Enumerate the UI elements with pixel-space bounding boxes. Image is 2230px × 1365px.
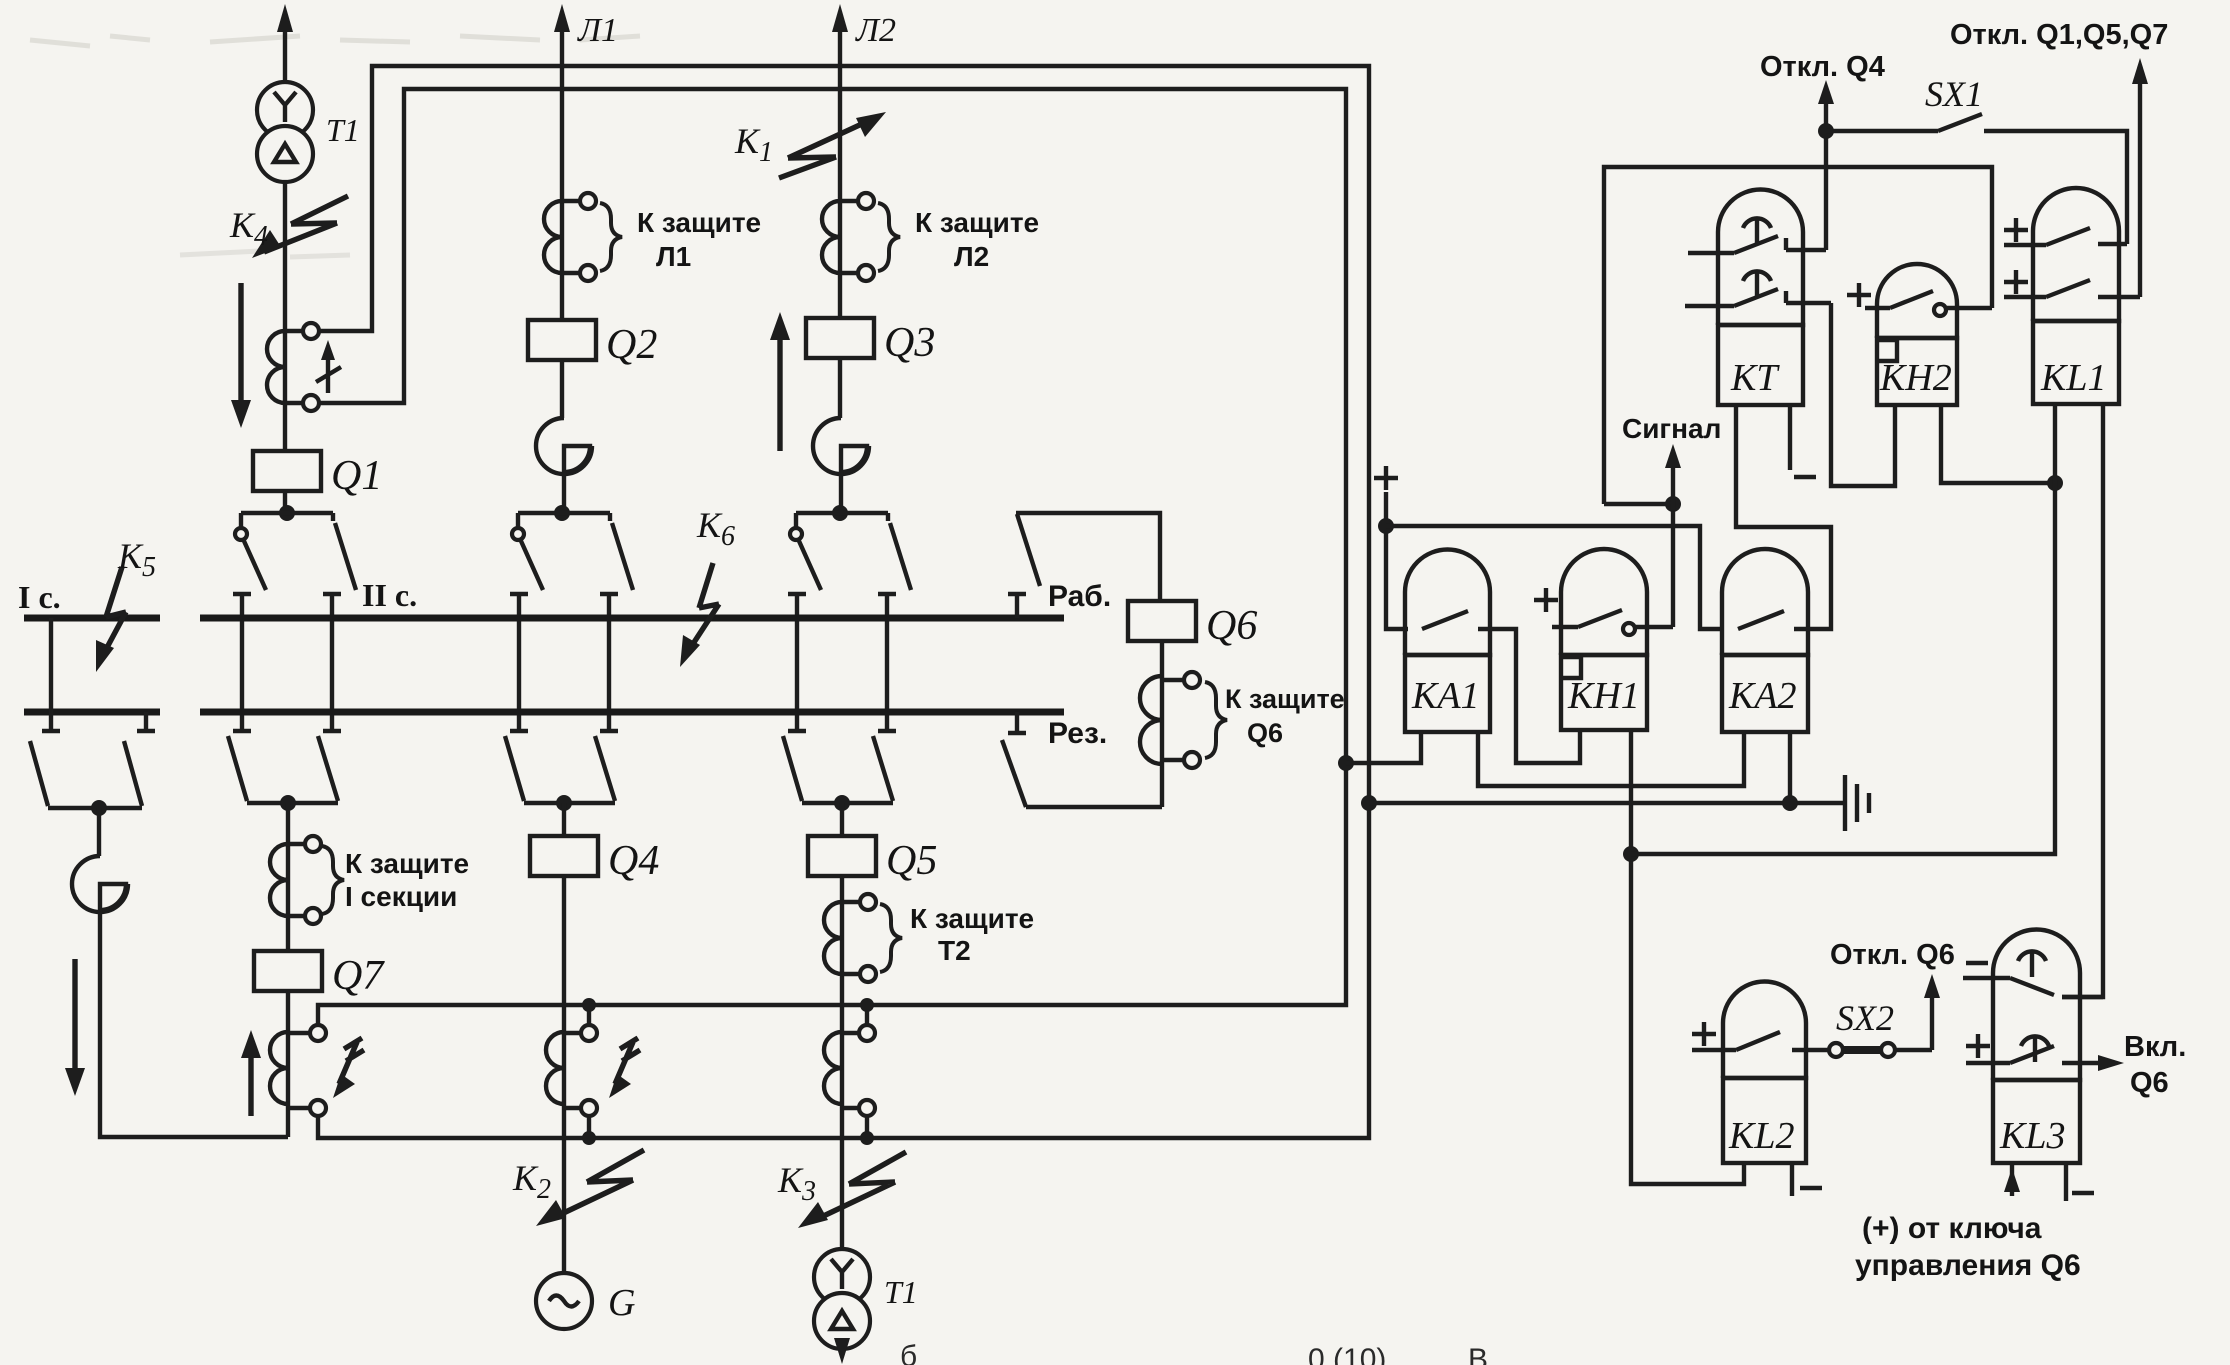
contact KT upper (time) xyxy=(1688,218,1826,253)
breaker Q7 xyxy=(254,951,322,991)
wire: KA2 coil right lead xyxy=(1788,732,1792,803)
node: ground junction xyxy=(1782,795,1798,811)
wire: T1 to CT xyxy=(283,182,287,451)
wire: Откл Q1,Q5,Q7 line xyxy=(2132,58,2148,297)
breaker Q3 xyxy=(806,318,874,358)
node: Л2 bay upper junction xyxy=(832,505,848,521)
contact KL1 upper xyxy=(2004,228,2127,245)
svg-text:Откл. Q6: Откл. Q6 xyxy=(1830,939,1955,971)
wire: hook to junction xyxy=(839,472,843,513)
breaker Q5 xyxy=(808,836,876,876)
plus terminal (KL2 contact) xyxy=(1692,1022,1716,1046)
fault marker K5 xyxy=(96,567,126,672)
plus terminal (KH1 contact) xyxy=(1534,588,1558,612)
disconnector pair upper (T1 bay) xyxy=(235,513,356,590)
bus selector ticks (Л1 bay) xyxy=(510,594,618,731)
svg-text:I с.: I с. xyxy=(18,579,61,615)
label Вкл. Q6 xyxy=(2124,1031,2186,1099)
contact KL3 lower (time) xyxy=(1966,1036,2098,1063)
arrow down (power direction, I section bay) xyxy=(65,959,85,1096)
disconnector pair lower (Л2 bay) xyxy=(783,736,893,803)
plus terminal (KH2 contact) xyxy=(1847,283,1871,307)
current transformer (Q4 bay) xyxy=(546,1025,597,1116)
marker: fault arrows at Q7 CT xyxy=(333,1038,364,1098)
wire: junction to hook xyxy=(97,808,101,856)
svg-text:KA1: KA1 xyxy=(1411,675,1480,717)
label: К защите Л2 xyxy=(915,207,1039,272)
svg-text:Q5: Q5 xyxy=(886,838,937,884)
wire: Вкл Q6 arrow xyxy=(2098,1055,2124,1071)
breaker Q2 xyxy=(528,320,596,360)
svg-text:Л2: Л2 xyxy=(855,12,896,49)
label (+) от ключа управления Q6 xyxy=(1855,1212,2081,1282)
svg-text:SX1: SX1 xyxy=(1925,74,1983,114)
plus terminal (KL1 lower contact) xyxy=(2004,270,2028,294)
contact KT lower (time) xyxy=(1685,271,1831,306)
current transformer (Л1) xyxy=(544,193,596,281)
svg-text:К защите: К защите xyxy=(637,207,761,238)
transformer T1 (bottom) xyxy=(814,1249,870,1349)
wire: junction to Q5 xyxy=(840,803,844,836)
svg-text:Q6: Q6 xyxy=(1206,603,1257,649)
wire: Сигнал arrow xyxy=(1604,444,1681,504)
svg-text:KA2: KA2 xyxy=(1728,675,1797,717)
label: К защите Л1 xyxy=(637,207,761,272)
svg-text:Вкл.: Вкл. xyxy=(2124,1031,2186,1063)
wire: KL3 plus input arrow xyxy=(2004,1163,2020,1196)
fault marker K1 xyxy=(779,112,886,178)
wire: junction to section CT xyxy=(286,803,290,951)
bus tick (reserve bus, Q6 bay) xyxy=(1008,712,1026,733)
node: I section bay junction xyxy=(91,800,107,816)
wire: Q6 to CT xyxy=(1160,641,1164,807)
bus II (working) xyxy=(200,615,1064,622)
wire: Сигнал node down to KH1 contact xyxy=(1671,504,1675,627)
disconnector Рез (Q6 bay) xyxy=(1002,740,1026,807)
current transformer (to I section protection) xyxy=(270,836,321,924)
svg-text:I секции: I секции xyxy=(345,881,457,912)
bus tick right (I section bay) xyxy=(137,712,155,731)
relay KH1 (indicating, coil) xyxy=(1561,549,1647,730)
switch SX1 xyxy=(1826,114,2127,244)
fault marker K4 xyxy=(252,196,348,258)
label: К защите I секции xyxy=(345,848,469,912)
wire: T1 feeder top with arrow xyxy=(277,4,293,82)
fault marker K6 xyxy=(680,563,719,667)
transformer T1 (top) xyxy=(257,82,313,182)
current transformer (Л2) xyxy=(822,193,874,281)
fault marker K2 xyxy=(536,1150,644,1226)
svg-text:К защите: К защите xyxy=(915,207,1039,238)
wire: Откл Q6 arrow xyxy=(1924,974,1940,1050)
svg-text:SX2: SX2 xyxy=(1836,998,1894,1038)
brace T2 CT xyxy=(880,904,902,972)
node: Сигнал junction xyxy=(1665,496,1681,512)
relay KL2 (intermediate) xyxy=(1723,982,1806,1164)
svg-text:Л1: Л1 xyxy=(656,241,691,272)
outgoing line symbol (Л2 bay) xyxy=(813,418,869,474)
label: К защите Т2 xyxy=(910,903,1034,966)
svg-text:KH1: KH1 xyxy=(1567,675,1640,717)
node: Q4 CT tap dots xyxy=(582,998,596,1145)
svg-text:К защите: К защите xyxy=(1225,684,1345,714)
wire: Q5 CT taps xyxy=(865,1005,869,1138)
wire: hook to junction xyxy=(562,472,566,513)
svg-text:KL2: KL2 xyxy=(1728,1115,1794,1157)
wire: CT secondary loop outer (T1 CT to relays) xyxy=(318,66,1369,1138)
node: Л1 bay lower junction xyxy=(556,795,572,811)
outgoing line symbol (I section bay) xyxy=(72,856,128,912)
bus I section xyxy=(24,615,160,622)
svg-text:К защите: К защите xyxy=(910,903,1034,934)
wire: Q7 down xyxy=(286,991,290,1137)
minus terminal (KL3 upper contact) xyxy=(1966,961,1988,965)
bus I section reserve xyxy=(24,709,160,716)
node: KA2 branch on CT loop xyxy=(1361,795,1377,811)
breaker Q4 xyxy=(530,836,598,876)
bus selector ticks (Л2 bay) xyxy=(788,594,896,731)
svg-text:KL1: KL1 xyxy=(2040,357,2106,399)
plus terminal (KA row supply) xyxy=(1374,466,1408,629)
label: К защите Q6 xyxy=(1225,684,1345,748)
contact KA2 xyxy=(1738,611,1784,629)
contact KL3 upper (time) xyxy=(1963,951,2103,997)
generator G xyxy=(536,1273,592,1329)
wire: KH2 coil right lead to KL1 xyxy=(1941,405,2055,483)
wire: Q6 CT down to Рез disconnector xyxy=(1026,805,1162,809)
svg-text:б: б xyxy=(900,1340,917,1365)
svg-text:Q2: Q2 xyxy=(606,322,657,368)
svg-text:Q7: Q7 xyxy=(332,953,385,999)
node: KH1 lead / KL1 return junction xyxy=(1623,846,1639,862)
svg-text:Л2: Л2 xyxy=(954,241,989,272)
plus terminal (KL1 upper contact) xyxy=(2004,218,2028,242)
wire: T1 bottom arrow xyxy=(834,1338,850,1364)
svg-text:(+) от ключа: (+) от ключа xyxy=(1862,1212,2042,1245)
marker: fault arrows at Q4 CT xyxy=(609,1038,640,1098)
wire: plus bus to KA2 contact xyxy=(1386,526,1724,629)
svg-text:Раб.: Раб. xyxy=(1048,580,1111,613)
svg-text:KT: KT xyxy=(1730,357,1780,399)
relay KL3 (intermediate, two time contacts) xyxy=(1993,930,2080,1163)
node: KH2/KL1 junction xyxy=(2047,475,2063,491)
wire: KH1 coil right lead down to KL2 xyxy=(1631,730,1744,1184)
contact KA1 xyxy=(1422,611,1468,629)
wire: Q5 down to T1 xyxy=(840,876,844,1249)
breaker Q6 xyxy=(1128,601,1196,641)
svg-text:G: G xyxy=(608,1282,635,1324)
node: Л1 bay upper junction xyxy=(554,505,570,521)
wire: ground net xyxy=(1369,801,1845,805)
node: SX1 junction xyxy=(1818,123,1834,139)
wire: KL1 coil left lead to KH1 node xyxy=(1631,404,2055,854)
contact KL2 xyxy=(1692,1032,1828,1050)
brace Л1 CT xyxy=(600,203,622,271)
wire: Q2 to hook xyxy=(560,360,564,418)
node: KA1 branch on CT loop xyxy=(1338,755,1354,771)
svg-text:Q3: Q3 xyxy=(884,320,935,366)
svg-text:KH2: KH2 xyxy=(1879,357,1952,399)
node: Q5 CT tap dots xyxy=(860,998,874,1145)
bus tick (working bus, Q6 bay) xyxy=(1008,594,1026,618)
feeder Л2 top with arrow xyxy=(832,4,848,318)
contact KH2 with circle xyxy=(1865,291,1992,316)
contact KH1 with circle xyxy=(1552,610,1673,635)
svg-text:Q6: Q6 xyxy=(2130,1067,2169,1099)
outgoing line symbol (Л1 bay) xyxy=(536,418,592,474)
bus selector ticks (T1 bay) xyxy=(233,594,341,731)
wire: junction to Q4 xyxy=(562,803,566,836)
fault marker K3 xyxy=(798,1152,906,1228)
wire: KT coil right lead to minus xyxy=(1790,405,1816,477)
relay KL1 (intermediate) xyxy=(2033,188,2119,404)
arrow down (power direction, T1 bay) xyxy=(231,283,251,428)
brace I section CT xyxy=(322,846,344,914)
svg-text:Сигнал: Сигнал xyxy=(1622,413,1721,444)
ground symbol xyxy=(1845,775,1869,831)
bus reserve xyxy=(200,709,1064,716)
wire: KA1 contact to KH1 coil xyxy=(1478,629,1580,763)
wire: Q1 to junction xyxy=(283,491,287,513)
wire: KT lower contact to KH2 coil xyxy=(1831,303,1895,486)
wire: KL2 coil right lead to minus xyxy=(1792,1163,1822,1196)
relay KA2 (overcurrent, coil) xyxy=(1722,549,1808,732)
svg-text:В: В xyxy=(1468,1343,1488,1365)
plus terminal (KL3 lower contact) xyxy=(1966,1034,1990,1058)
wire: CT secondary loop inner xyxy=(318,89,1346,1025)
breaker Q1 xyxy=(253,451,321,491)
current transformer lower (Q5 bay) xyxy=(824,1025,875,1116)
svg-text:II с.: II с. xyxy=(362,577,417,613)
svg-text:T1: T1 xyxy=(326,112,360,148)
current transformer (to T2 protection) xyxy=(824,894,876,982)
CT polarity arrow with slash xyxy=(316,340,341,393)
brace Л2 CT xyxy=(878,203,900,271)
svg-text:0 (10): 0 (10) xyxy=(1308,1343,1386,1365)
relay KH2 (indicating, coil) xyxy=(1877,264,1957,405)
svg-text:Откл. Q4: Откл. Q4 xyxy=(1760,51,1885,83)
svg-text:Q4: Q4 xyxy=(608,838,659,884)
svg-text:Рез.: Рез. xyxy=(1048,717,1107,750)
wire: KA2 contact to KT coil xyxy=(1736,405,1831,629)
switch SX2 (removable link) xyxy=(1829,1043,1932,1057)
svg-text:управления Q6: управления Q6 xyxy=(1855,1249,2081,1282)
arrow up (power direction, Л2 bay) xyxy=(770,312,790,451)
relay KT (time relay) xyxy=(1718,190,1803,406)
svg-text:Л1: Л1 xyxy=(577,12,618,49)
current transformer lower (Q7 bay) xyxy=(270,1025,326,1116)
wire: Откл Q4 line xyxy=(1818,80,1834,250)
wire: KL1 coil right lead to KL3 contact xyxy=(2062,404,2103,997)
relay KA1 (overcurrent, coil) xyxy=(1405,550,1490,733)
brace Q6 CT xyxy=(1205,682,1227,758)
disconnector pair upper (Л2 bay) xyxy=(790,513,911,590)
svg-text:Откл. Q1,Q5,Q7: Откл. Q1,Q5,Q7 xyxy=(1950,19,2168,51)
bus tick left (I section bay) xyxy=(42,618,60,731)
node: plus junction xyxy=(1378,518,1394,534)
wire: Q4 down to generator xyxy=(562,876,566,1273)
wire: KA1 coil leads xyxy=(1346,732,1744,786)
disconnector pair lower (Л1 bay) xyxy=(505,736,615,803)
node: T1 bay lower junction xyxy=(280,795,296,811)
disconnector pair (I section bay) xyxy=(30,741,142,808)
disconnector Раб (Q6 bay) xyxy=(1016,513,1160,601)
current transformer TA (T1 bay) xyxy=(267,323,319,411)
svg-text:KL3: KL3 xyxy=(1999,1115,2065,1157)
current transformer (Q6) xyxy=(1140,672,1200,768)
node: T1 bay upper junction xyxy=(279,505,295,521)
wire: Q3 to hook xyxy=(838,358,842,418)
wire: I section feeder to Q7 bay bottom link xyxy=(100,910,288,1137)
feeder Л1 top with arrow xyxy=(554,4,570,320)
arrow up (power direction, Q7 bay) xyxy=(241,1030,261,1116)
node: Л2 bay lower junction xyxy=(834,795,850,811)
wire: KL3 coil right lead to minus xyxy=(2066,1163,2094,1201)
svg-text:Т2: Т2 xyxy=(938,935,971,966)
svg-text:T1: T1 xyxy=(884,1274,918,1310)
svg-text:Q6: Q6 xyxy=(1247,718,1283,748)
svg-text:Q1: Q1 xyxy=(331,453,382,499)
contact KL1 lower xyxy=(2004,280,2140,297)
wire: frame KT area xyxy=(1604,167,1992,504)
disconnector pair upper (Л1 bay) xyxy=(512,513,633,590)
disconnector pair lower (T1 bay) xyxy=(228,736,338,803)
wire: Q4 CT taps xyxy=(587,1005,591,1138)
svg-text:К защите: К защите xyxy=(345,848,469,879)
